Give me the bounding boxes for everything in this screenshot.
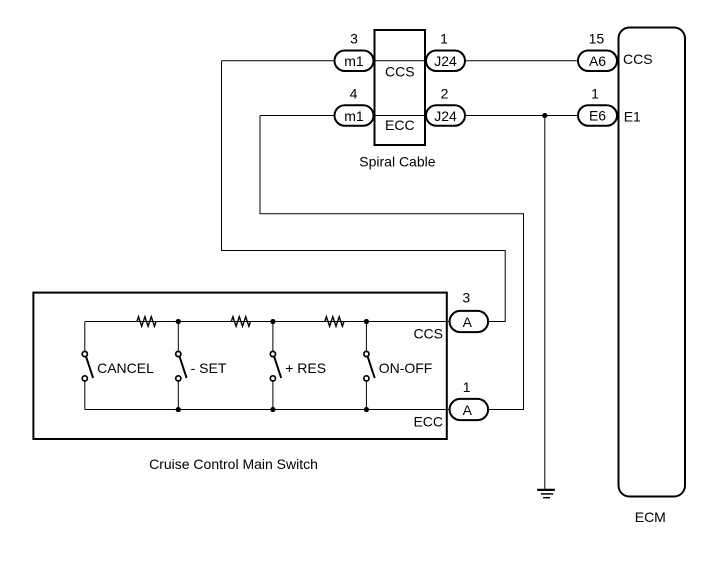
- svg-text:J24: J24: [434, 53, 457, 69]
- label CCS at switch box output: [413, 325, 443, 341]
- label ECM: [635, 509, 666, 525]
- wire top rail (CCS bus): [85, 321, 449, 323]
- connector J24 pin 1: [426, 51, 465, 72]
- label Cruise Control Main Switch: [149, 456, 318, 472]
- resistor R2: [231, 317, 250, 327]
- svg-text:CCS: CCS: [413, 325, 443, 341]
- spiral cable box: [375, 30, 426, 145]
- svg-text:m1: m1: [344, 108, 364, 124]
- svg-text:m1: m1: [344, 53, 364, 69]
- label CCS pin name on ECM: [623, 51, 653, 67]
- wire branch CANCEL: [84, 322, 86, 410]
- wire branch SET: [177, 322, 179, 410]
- label Spiral Cable: [359, 154, 435, 170]
- ground: [537, 490, 555, 498]
- connector A (CCS output of switch): [450, 311, 489, 332]
- svg-text:ECM: ECM: [635, 509, 666, 525]
- pin number 2 of J24: [441, 86, 449, 102]
- wire ECC row from node at x260 through Spiral Cable to ECM E6: [260, 115, 577, 117]
- svg-text:Cruise Control Main Switch: Cruise Control Main Switch: [149, 456, 318, 472]
- resistor R1: [137, 317, 156, 327]
- label ECC at switch box output: [413, 413, 443, 429]
- pin number 15 of A6: [589, 31, 605, 47]
- wire bottom rail (ECC bus): [85, 409, 449, 411]
- label CCS inside spiral cable box: [385, 63, 415, 79]
- svg-text:E6: E6: [589, 108, 606, 124]
- pin number 3 of connector A: [462, 290, 470, 306]
- pin number 3 of m1: [350, 31, 358, 47]
- junction top rail / ON-OFF branch: [364, 319, 369, 324]
- switch ON-OFF: [364, 351, 433, 381]
- switch - SET: [176, 351, 227, 381]
- svg-text:E1: E1: [624, 109, 641, 125]
- wire branch RES: [272, 322, 274, 410]
- junction bottom rail / SET branch: [176, 407, 181, 412]
- connector m1 (CCS side): [335, 51, 374, 72]
- svg-text:ECC: ECC: [413, 413, 443, 429]
- svg-text:ON-OFF: ON-OFF: [379, 360, 433, 376]
- junction bottom rail / ON-OFF branch: [364, 407, 369, 412]
- wire branch ON-OFF: [365, 322, 367, 410]
- junction bottom rail / RES branch: [270, 407, 275, 412]
- svg-text:- SET: - SET: [191, 360, 227, 376]
- ECM box: [619, 28, 686, 497]
- connector m1 (ECC side): [335, 105, 374, 126]
- svg-text:CCS: CCS: [623, 51, 653, 67]
- svg-text:3: 3: [462, 290, 470, 306]
- svg-text:1: 1: [440, 31, 448, 47]
- connector A6 on ECM: [578, 51, 617, 72]
- svg-text:Spiral Cable: Spiral Cable: [359, 154, 435, 170]
- wire route m1 pin4 down-right-down to switch ECC connector A: [260, 116, 524, 410]
- svg-text:1: 1: [463, 379, 471, 395]
- switch + RES: [270, 351, 326, 381]
- pin number 1 of connector A: [463, 379, 471, 395]
- connector E6 on ECM: [578, 105, 617, 126]
- svg-text:4: 4: [350, 86, 358, 102]
- pin number 4 of m1: [350, 86, 358, 102]
- svg-text:ECC: ECC: [385, 117, 415, 133]
- svg-text:CCS: CCS: [385, 63, 415, 79]
- svg-text:15: 15: [589, 31, 605, 47]
- svg-text:A: A: [463, 402, 473, 418]
- wire CCS row from node at x221.5 through Spiral Cable to ECM A6: [222, 60, 578, 62]
- svg-text:A6: A6: [589, 53, 606, 69]
- resistor R3: [325, 317, 344, 327]
- svg-text:3: 3: [350, 31, 358, 47]
- svg-text:J24: J24: [434, 108, 457, 124]
- wire route m1 pin3 down-right-down to switch CCS connector A: [222, 61, 506, 322]
- switch CANCEL: [82, 351, 154, 381]
- junction on ECC row at ground drop: [542, 113, 547, 118]
- connector A (ECC output of switch): [450, 399, 489, 420]
- junction top rail / RES branch: [270, 319, 275, 324]
- svg-text:1: 1: [591, 86, 599, 102]
- pin number 1 of E6: [591, 86, 599, 102]
- label ECC inside spiral cable box: [385, 117, 415, 133]
- svg-text:2: 2: [441, 86, 449, 102]
- label E1 pin name on ECM: [624, 109, 641, 125]
- cruise control main switch box: [33, 293, 446, 439]
- svg-text:CANCEL: CANCEL: [97, 360, 154, 376]
- pin number 1 of J24: [440, 31, 448, 47]
- wire ground drop from ECC row junction: [544, 116, 546, 490]
- junction top rail / SET branch: [176, 319, 181, 324]
- connector J24 pin 2: [426, 105, 465, 126]
- svg-text:+ RES: + RES: [285, 360, 326, 376]
- svg-text:A: A: [463, 314, 473, 330]
